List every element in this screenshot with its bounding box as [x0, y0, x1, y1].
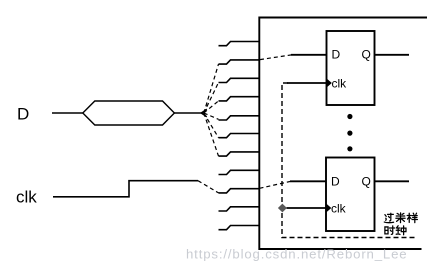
- svg-text:clk: clk: [331, 201, 347, 215]
- wire clk waveform: [53, 181, 198, 197]
- wire dashed fan to edge 3: [204, 83, 219, 114]
- 过: [384, 213, 393, 222]
- svg-text:clk: clk: [332, 76, 348, 90]
- 样: [407, 213, 417, 222]
- clock edge comb 5: [219, 116, 260, 120]
- U1 clock wedge: [327, 78, 332, 87]
- clock edge comb 3: [219, 78, 260, 82]
- wire dashed oversampling clock distribution: [282, 83, 417, 238]
- clock edge comb 9: [219, 189, 260, 193]
- svg-text:Q: Q: [362, 175, 371, 189]
- wire D input lead: [52, 112, 83, 114]
- flip-flop U1: [327, 31, 375, 105]
- 钟: [396, 226, 406, 235]
- clock edge comb 10: [219, 207, 260, 211]
- clock edge comb 11: [219, 226, 260, 230]
- wire dashed comb edge 9 to U2 D input: [260, 182, 291, 189]
- wire U1 Q output: [375, 54, 410, 56]
- junction diamond on U2 clk: [279, 204, 287, 211]
- clock edge comb 4: [219, 97, 260, 101]
- svg-text:clk: clk: [16, 188, 37, 207]
- wire dashed fan to edge 6: [204, 113, 219, 138]
- wire U2 Q output: [375, 180, 410, 182]
- svg-text:Q: Q: [362, 48, 371, 62]
- ellipsis dot 1: [347, 114, 352, 119]
- clock edge comb 2: [219, 60, 260, 64]
- 采: [396, 213, 405, 223]
- 时: [385, 226, 395, 235]
- wire U1 D input: [291, 54, 327, 56]
- wire D to sampling point: [174, 112, 203, 114]
- wire U2 D input: [290, 180, 326, 182]
- ellipsis dot 2: [347, 131, 352, 136]
- label 时钟 (clock) drawn glyphs: [385, 226, 406, 235]
- svg-text:D: D: [17, 105, 29, 124]
- wire dashed clk to sample edge 9: [198, 181, 219, 193]
- wire U2 clk input: [287, 207, 327, 209]
- flip-flop U2: [326, 158, 375, 232]
- label 过采样 (oversampling) drawn glyphs: [384, 213, 417, 223]
- clock edge comb 8: [219, 170, 260, 174]
- wire dashed fan to edge 2: [204, 64, 219, 113]
- svg-text:D: D: [332, 48, 341, 62]
- clock edge comb 7: [219, 152, 260, 156]
- node D data-valid hexagon: [83, 101, 175, 125]
- clock edge comb 6: [219, 134, 260, 138]
- svg-text:D: D: [331, 175, 340, 189]
- node sampling-point arrowhead: [201, 109, 207, 117]
- outer sampler box: [259, 18, 427, 250]
- wire dashed fan to edge 4: [204, 101, 219, 113]
- wire dashed fan to edge 7: [204, 113, 219, 156]
- ellipsis dot 3: [347, 146, 352, 151]
- clock edge comb 1: [219, 42, 260, 46]
- wire dashed comb edge 2 to U1 D input: [260, 55, 292, 60]
- wire U1 clk input: [287, 82, 327, 84]
- svg-text:https://blog.csdn.net/Reborn_L: https://blog.csdn.net/Reborn_Lee: [186, 247, 407, 262]
- U2 clock wedge: [326, 203, 331, 212]
- wire dashed fan to edge 5: [204, 113, 219, 119]
